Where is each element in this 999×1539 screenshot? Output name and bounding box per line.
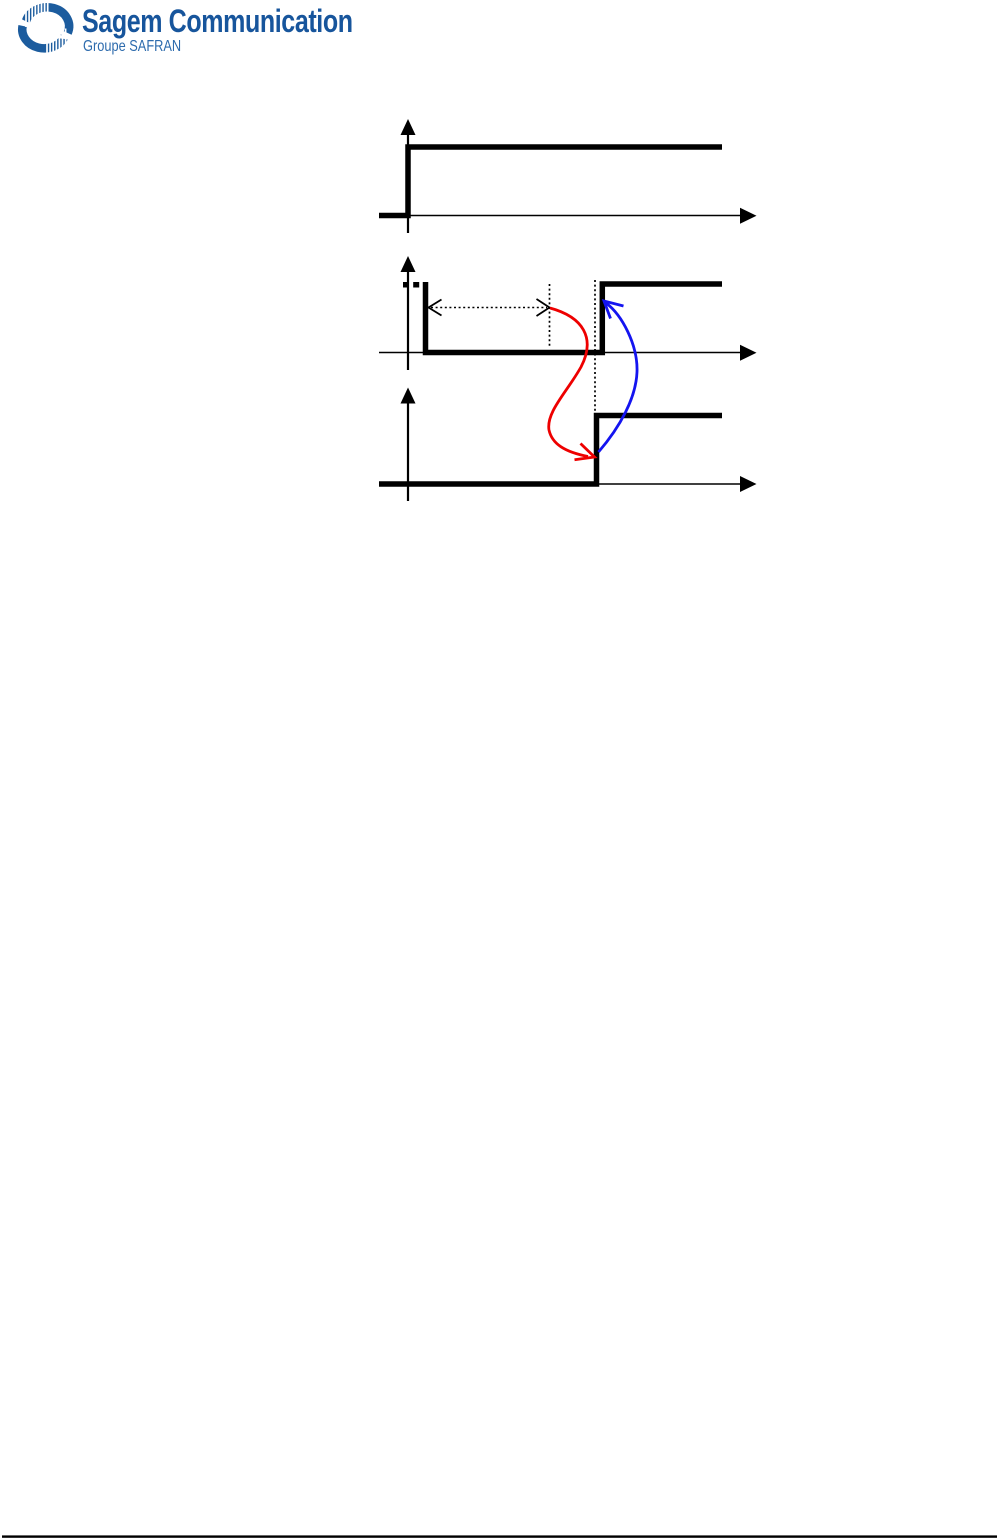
logo icon bottom band xyxy=(22,26,64,48)
graph1 waveform step xyxy=(379,147,722,216)
logo icon white channel left xyxy=(16,19,34,29)
graph3 x-axis xyxy=(379,476,757,492)
bottom rule xyxy=(2,1535,997,1537)
graph2 x-axis xyxy=(379,345,757,361)
red curved arrow xyxy=(549,308,595,460)
logo icon top band xyxy=(26,7,69,33)
dotted vertical line A xyxy=(549,284,551,348)
graph1 y-axis xyxy=(401,119,416,233)
graph3 waveform step xyxy=(379,416,722,485)
logo subtext Groupe SAFRAN xyxy=(83,38,181,56)
dotted vertical line B xyxy=(594,280,596,414)
logo icon stripes top xyxy=(26,3,48,27)
graph2 dashed high start xyxy=(403,282,423,288)
logo icon white channel right xyxy=(57,36,75,39)
logo icon stripes bottom xyxy=(47,29,66,57)
blue curved arrow xyxy=(599,301,638,452)
graph2 y-axis xyxy=(401,256,416,370)
graph1 x-axis xyxy=(379,208,757,224)
graph3 y-axis xyxy=(401,388,416,502)
graph2 waveform step xyxy=(426,282,723,353)
measurement double arrow xyxy=(429,299,550,316)
logo text Sagem Communication xyxy=(82,3,353,40)
